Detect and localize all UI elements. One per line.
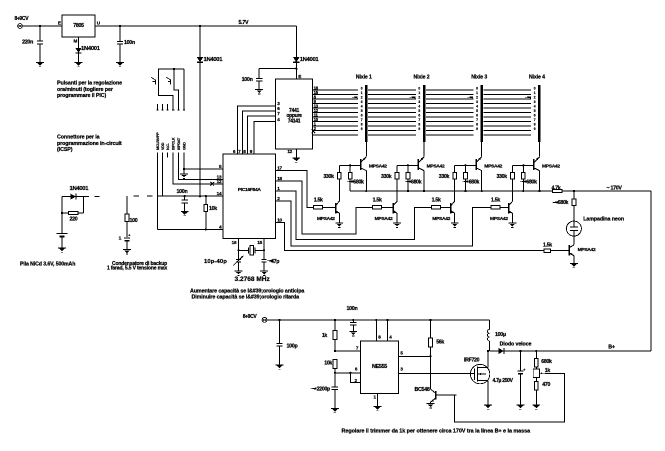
neon lamp LP1 bbox=[566, 216, 624, 236]
svg-text:PIC16F84A: PIC16F84A bbox=[238, 187, 262, 193]
svg-text:100n: 100n bbox=[347, 306, 358, 312]
transistor T6 BC548 bbox=[415, 387, 457, 403]
wire VDD line to PIC pin14 bbox=[162, 195, 223, 197]
capacitor C2 100n bbox=[117, 26, 135, 62]
comment: pulsanti regolazione bbox=[57, 81, 122, 100]
svg-text:10p-40p: 10p-40p bbox=[204, 259, 227, 265]
svg-text:18: 18 bbox=[277, 176, 282, 181]
svg-text:100µ: 100µ bbox=[495, 332, 506, 338]
resistor R 1.5k col4 bbox=[491, 197, 509, 209]
switch S1 bbox=[151, 77, 159, 84]
wire ICSP pin3 stub bbox=[167, 153, 169, 158]
ground bbox=[292, 158, 300, 162]
ground bbox=[484, 405, 492, 409]
svg-text:330k: 330k bbox=[381, 174, 392, 180]
svg-text:MPSA42: MPSA42 bbox=[484, 163, 502, 169]
ground bbox=[180, 174, 188, 178]
nixie tube V3 bbox=[467, 85, 483, 142]
svg-text:7: 7 bbox=[476, 118, 478, 122]
diode D1 1N4001 on 7805 ground pin bbox=[75, 46, 100, 63]
svg-text:Diodo veloce: Diodo veloce bbox=[500, 342, 532, 348]
svg-text:1N4001: 1N4001 bbox=[81, 46, 101, 52]
ground bbox=[509, 223, 517, 227]
svg-text:1 farad, 5.5 V tensione max: 1 farad, 5.5 V tensione max bbox=[107, 266, 168, 272]
no-connect cross on output bus bbox=[312, 129, 316, 133]
resistor R 330k col4 bbox=[496, 165, 514, 201]
ground bbox=[570, 263, 578, 267]
wire anode 170V rail bbox=[350, 190, 552, 192]
svg-text:7805: 7805 bbox=[73, 23, 84, 29]
svg-text:10: 10 bbox=[277, 218, 282, 223]
svg-text:MPSA42: MPSA42 bbox=[490, 216, 508, 222]
svg-text:7: 7 bbox=[418, 118, 420, 122]
regulator U2 7805 bbox=[58, 15, 101, 44]
transistor T2b MPSA42 cathode-side bbox=[375, 201, 398, 223]
svg-text:0: 0 bbox=[476, 87, 478, 91]
wire S2 to pin5 bbox=[174, 84, 179, 104]
PIC left pin labels bbox=[217, 164, 222, 230]
svg-text:5: 5 bbox=[418, 109, 420, 113]
resistor R 1.5k neon bbox=[543, 243, 569, 253]
resistor R 470 bbox=[534, 378, 550, 405]
svg-text:programmare il PIC): programmare il PIC) bbox=[57, 93, 106, 99]
svg-text:MPSA42: MPSA42 bbox=[317, 216, 335, 222]
trimmer R 1k bbox=[533, 367, 550, 378]
resistor R 680k col1 bbox=[347, 165, 364, 191]
transistor T1b MPSA42 cathode-side bbox=[317, 201, 340, 223]
resistor R3 10k pullup bbox=[204, 196, 217, 229]
wire PIC pin2 to column4 bbox=[275, 201, 491, 246]
svg-text:10k: 10k bbox=[209, 206, 217, 212]
svg-text:47p: 47p bbox=[271, 259, 280, 265]
svg-text:9: 9 bbox=[361, 127, 363, 131]
svg-text:1.5k: 1.5k bbox=[543, 243, 552, 249]
wire feedback to BC548 base bbox=[455, 373, 565, 422]
svg-text:1: 1 bbox=[476, 91, 478, 95]
svg-text:330k: 330k bbox=[323, 174, 334, 180]
capacitor C8 100p bbox=[276, 320, 298, 365]
dashed backup supply wire bbox=[83, 196, 162, 214]
wire rail to pin6 bbox=[183, 69, 185, 104]
inductor L1 100u bbox=[487, 320, 505, 351]
svg-text:12: 12 bbox=[287, 149, 292, 154]
svg-text:ISPCLK: ISPCLK bbox=[172, 137, 176, 150]
wire 170V to right edge bbox=[573, 186, 651, 193]
resistor R 330k col3 bbox=[439, 165, 457, 201]
svg-text:1: 1 bbox=[418, 91, 420, 95]
ground bbox=[116, 62, 124, 66]
ground bbox=[532, 405, 540, 409]
resistor R 1.5k col2 bbox=[373, 197, 394, 209]
connector J2 8÷9V boost input bbox=[243, 314, 267, 322]
svg-text:12: 12 bbox=[217, 179, 222, 184]
transistor T1a MPSA42 anode driver bbox=[361, 142, 388, 191]
svg-text:3: 3 bbox=[418, 100, 420, 104]
wire battery loop bbox=[61, 197, 84, 234]
svg-text:680k: 680k bbox=[526, 179, 537, 185]
svg-text:6: 6 bbox=[476, 114, 478, 118]
svg-text:8: 8 bbox=[476, 123, 478, 127]
svg-text:8: 8 bbox=[361, 123, 363, 127]
svg-text:1N4001: 1N4001 bbox=[300, 57, 320, 63]
svg-text:ISPDAT: ISPDAT bbox=[177, 137, 181, 150]
svg-text:8: 8 bbox=[418, 123, 420, 127]
crystal Q1 3.2768MHz bbox=[249, 245, 255, 255]
svg-text:0: 0 bbox=[418, 87, 420, 91]
svg-text:100n: 100n bbox=[177, 189, 188, 195]
svg-text:N.C.: N.C. bbox=[166, 143, 170, 150]
transistor T3b MPSA42 cathode-side bbox=[432, 201, 455, 223]
comment: connettore ICSP bbox=[57, 135, 122, 154]
svg-text:15: 15 bbox=[257, 240, 262, 245]
svg-text:Lampadina neon: Lampadina neon bbox=[583, 216, 624, 222]
capacitor C5 10p-40p trimmer bbox=[204, 250, 244, 271]
diode D3 1N4001 rail to VDD bbox=[197, 26, 223, 196]
svg-text:680k: 680k bbox=[541, 359, 552, 365]
svg-text:1.5k: 1.5k bbox=[432, 197, 441, 203]
wire ICSP pin6 GND to PIC pin5 bbox=[183, 153, 223, 174]
resistor R 330k col2 bbox=[381, 165, 399, 201]
svg-text:9: 9 bbox=[476, 127, 478, 131]
wire S1 to pin4 bbox=[159, 84, 174, 104]
diode D4 1N4001 rail to 74141 bbox=[293, 26, 319, 79]
resistor R 330k col1 bbox=[323, 165, 341, 201]
nixie tube V4 bbox=[524, 85, 540, 142]
ground bbox=[260, 271, 268, 275]
svg-text:+: + bbox=[523, 368, 525, 372]
wire PIC pin6 to 74141 pin3 bbox=[238, 106, 276, 154]
svg-text:MPSA42: MPSA42 bbox=[432, 216, 450, 222]
74141 input pin labels bbox=[277, 101, 280, 122]
ground bbox=[123, 250, 131, 254]
resistor R 1.5k col1 bbox=[314, 197, 336, 209]
wire 555 pin7 bbox=[334, 350, 361, 352]
wire crystal network bbox=[237, 239, 265, 252]
transistor T2a MPSA42 anode driver bbox=[418, 142, 445, 191]
svg-text:1.5k: 1.5k bbox=[373, 197, 382, 203]
svg-text:3.2768 MHz: 3.2768 MHz bbox=[235, 276, 271, 283]
svg-text:0: 0 bbox=[361, 87, 363, 91]
ground bbox=[58, 248, 66, 252]
resistor R 10k timing bbox=[324, 360, 337, 373]
resistor R 56k bbox=[429, 320, 445, 389]
svg-text:6: 6 bbox=[534, 114, 536, 118]
svg-text:4.7k: 4.7k bbox=[552, 185, 561, 191]
ground bbox=[331, 408, 339, 412]
svg-text:4: 4 bbox=[361, 105, 363, 109]
resistor R 1.5k col3 bbox=[432, 197, 451, 209]
switch S2 bbox=[166, 77, 174, 84]
svg-text:B+: B+ bbox=[608, 344, 615, 350]
svg-text:Nixie 4: Nixie 4 bbox=[529, 75, 545, 81]
NE555 pin labels bbox=[355, 335, 404, 400]
wire PIC pin10 to neon driver bbox=[275, 223, 544, 251]
svg-text:~ 170V: ~ 170V bbox=[607, 186, 623, 192]
svg-text:Connettore per la: Connettore per la bbox=[57, 135, 100, 141]
capacitor C11 4.7u 250V bbox=[493, 350, 526, 405]
svg-text:BC548: BC548 bbox=[415, 387, 430, 393]
wire base network bbox=[512, 164, 533, 166]
svg-text:Diminuire capacità se l&#39;or: Diminuire capacità se l&#39;orologio rit… bbox=[192, 295, 300, 301]
svg-text:74141: 74141 bbox=[288, 118, 301, 124]
PIC bottom pin labels 16 15 bbox=[232, 240, 263, 245]
resistor R 680k col2 bbox=[404, 165, 421, 191]
svg-text:680k: 680k bbox=[469, 179, 480, 185]
svg-text:Pila NiCd 3.6V, 500mAh: Pila NiCd 3.6V, 500mAh bbox=[20, 262, 75, 268]
wire ICSP pin2 to VDD line bbox=[161, 153, 163, 197]
nixie tube V2 bbox=[409, 85, 425, 142]
svg-text:5: 5 bbox=[534, 109, 536, 113]
wire 7805 M pin bbox=[78, 37, 80, 48]
capacitor C3 backup 1F bbox=[119, 233, 131, 249]
svg-text:8: 8 bbox=[534, 123, 536, 127]
svg-text:1.5k: 1.5k bbox=[314, 197, 323, 203]
svg-text:9: 9 bbox=[418, 127, 420, 131]
ground bbox=[75, 62, 83, 66]
svg-text:2: 2 bbox=[418, 96, 420, 100]
svg-text:100p: 100p bbox=[287, 344, 299, 350]
svg-text:100n: 100n bbox=[124, 40, 135, 46]
wire 555 pin5 bbox=[399, 355, 432, 357]
svg-text:IRF720: IRF720 bbox=[464, 358, 480, 364]
svg-text:56k: 56k bbox=[436, 340, 444, 346]
svg-text:MPSA42: MPSA42 bbox=[369, 163, 387, 169]
ground bbox=[374, 406, 382, 410]
svg-text:E: E bbox=[58, 20, 61, 25]
svg-text:5: 5 bbox=[361, 109, 363, 113]
svg-text:(ICSP): (ICSP) bbox=[57, 147, 73, 153]
svg-text:Nixie 2: Nixie 2 bbox=[414, 75, 430, 81]
ground bbox=[36, 62, 44, 66]
svg-text:4: 4 bbox=[476, 105, 478, 109]
svg-text:2: 2 bbox=[476, 96, 478, 100]
transistor T4a MPSA42 anode driver bbox=[534, 142, 561, 191]
svg-text:MPSA42: MPSA42 bbox=[578, 247, 596, 253]
svg-text:14: 14 bbox=[217, 191, 222, 196]
svg-text:+: + bbox=[128, 233, 130, 237]
resistor R1 220 bbox=[62, 211, 83, 222]
resistor R 1k timing bbox=[322, 320, 337, 351]
svg-text:GND: GND bbox=[182, 142, 186, 150]
svg-text:Pulsanti per la regolazione: Pulsanti per la regolazione bbox=[57, 81, 122, 87]
svg-text:MPSA42: MPSA42 bbox=[427, 163, 445, 169]
svg-text:Nixie 3: Nixie 3 bbox=[471, 75, 487, 81]
svg-text:2: 2 bbox=[534, 96, 536, 100]
svg-text:7: 7 bbox=[361, 118, 363, 122]
74141 GND pin 12 bbox=[287, 149, 296, 158]
wire ICSP pin1 to MCLR line bbox=[156, 153, 158, 230]
svg-text:8÷9CV: 8÷9CV bbox=[15, 16, 30, 22]
svg-text:680k: 680k bbox=[558, 200, 569, 206]
wire PIC pin8 to 74141 pin7 bbox=[248, 116, 276, 154]
svg-text:1k: 1k bbox=[322, 333, 328, 339]
svg-text:3: 3 bbox=[476, 100, 478, 104]
resistor R2 100 bbox=[125, 214, 138, 237]
connector J1 8÷9V input bbox=[15, 16, 30, 28]
svg-text:7: 7 bbox=[534, 118, 536, 122]
svg-text:Nixie 1: Nixie 1 bbox=[356, 75, 372, 81]
svg-text:1.5k: 1.5k bbox=[491, 197, 500, 203]
wire jumper top rail bbox=[159, 68, 184, 79]
svg-text:1N4001: 1N4001 bbox=[204, 57, 224, 63]
no-connect cross on pin12 wire bbox=[210, 182, 214, 186]
PIC right pin labels bbox=[277, 166, 282, 223]
svg-text:2200p: 2200p bbox=[317, 387, 330, 393]
svg-text:M: M bbox=[73, 39, 77, 44]
wire PIC pin9 to 74141 pin4 bbox=[254, 122, 276, 154]
wire PIC pin1 to column3 bbox=[275, 191, 431, 240]
svg-text:680k: 680k bbox=[353, 179, 364, 185]
wire PIC pin18 to column2 bbox=[275, 181, 372, 234]
svg-text:4.7µ 250V: 4.7µ 250V bbox=[493, 378, 514, 384]
wire MCLR line to PIC pin4 bbox=[157, 228, 223, 230]
wire boost supply rail bbox=[267, 319, 490, 321]
resistor R 680k neon bbox=[551, 191, 576, 221]
svg-text:9: 9 bbox=[534, 127, 536, 131]
diode D2 1N4001 battery bbox=[62, 186, 89, 199]
IC U4 NE555 bbox=[360, 341, 398, 394]
resistor R 680k feedback bbox=[534, 350, 552, 367]
svg-text:NE555: NE555 bbox=[372, 364, 387, 370]
ground bbox=[276, 365, 284, 369]
svg-text:8÷9CV: 8÷9CV bbox=[243, 314, 258, 320]
capacitor C7 100n 74141 bypass bbox=[242, 68, 298, 90]
ground bbox=[451, 223, 459, 227]
wire 555 power pins bbox=[376, 320, 387, 341]
ground bbox=[349, 332, 357, 336]
mosfet Q2 IRF720 bbox=[464, 351, 490, 405]
comment: condensatore di backup bbox=[107, 261, 168, 272]
wire PIC pin17 to column1 bbox=[275, 171, 313, 208]
ground bbox=[335, 223, 343, 227]
ground bbox=[517, 405, 525, 409]
wire base network bbox=[455, 164, 476, 166]
diode D5 fast bbox=[487, 342, 651, 354]
resistor R 4.7k bbox=[552, 185, 574, 192]
battery B1 NiCd bbox=[57, 233, 68, 247]
capacitor C10 100n 555 bypass bbox=[347, 306, 358, 331]
svg-text:10k: 10k bbox=[324, 361, 332, 367]
comment: aumentare capacita bbox=[190, 289, 304, 301]
ground bbox=[181, 211, 189, 215]
svg-text:3: 3 bbox=[361, 100, 363, 104]
74141 output pin labels bbox=[314, 85, 319, 131]
transistor T3a MPSA42 anode driver bbox=[476, 142, 503, 191]
74141 output bus wires bbox=[313, 90, 532, 135]
svg-text:MCLR/VPP: MCLR/VPP bbox=[156, 132, 160, 150]
IC U3 7441/74141 bbox=[276, 74, 313, 149]
wire 555 pin6 pin2 bbox=[334, 372, 361, 383]
wire ICSP pin5 to PIC pin13 bbox=[178, 153, 223, 180]
svg-text:2: 2 bbox=[361, 96, 363, 100]
svg-text:330k: 330k bbox=[439, 174, 450, 180]
svg-text:MPSA42: MPSA42 bbox=[542, 163, 560, 169]
svg-text:E: E bbox=[298, 74, 301, 79]
svg-text:470: 470 bbox=[542, 382, 550, 388]
svg-text:1N4001: 1N4001 bbox=[70, 186, 90, 192]
capacitor C1 220n bbox=[22, 26, 43, 62]
wire 7805 output rail 5.7V bbox=[95, 25, 296, 27]
svg-text:16: 16 bbox=[232, 240, 237, 245]
svg-text:6: 6 bbox=[418, 114, 420, 118]
resistor R 680k col3 bbox=[462, 165, 479, 191]
connector SV1 pins bbox=[156, 104, 185, 110]
wire ICSP pin4 to PIC pin12 bbox=[173, 153, 223, 184]
wire 555 pin1 to ground bbox=[377, 394, 379, 407]
PIC top pin labels 6 7 8 9 bbox=[233, 149, 253, 154]
IC U1 PIC16F84A bbox=[223, 154, 275, 239]
svg-text:0: 0 bbox=[534, 87, 536, 91]
svg-text:MPSA42: MPSA42 bbox=[375, 216, 393, 222]
wire base network bbox=[339, 164, 360, 166]
svg-text:4: 4 bbox=[534, 105, 536, 109]
wire 555 pin3 to gate bbox=[399, 372, 471, 374]
svg-text:VDD: VDD bbox=[161, 142, 165, 150]
svg-text:3: 3 bbox=[534, 100, 536, 104]
wire input to 7805 bbox=[22, 25, 62, 27]
ground bbox=[393, 223, 401, 227]
svg-text:680k: 680k bbox=[411, 179, 422, 185]
svg-text:17: 17 bbox=[277, 166, 282, 171]
connector pin labels bbox=[156, 132, 187, 150]
transistor T4b MPSA42 cathode-side bbox=[490, 201, 513, 223]
ground bbox=[255, 90, 263, 94]
wire base network bbox=[397, 164, 418, 166]
svg-text:330k: 330k bbox=[496, 174, 507, 180]
capacitor C4 100n PIC bypass bbox=[177, 189, 188, 211]
wire 170V right edge down to B+ bbox=[650, 191, 652, 351]
svg-text:1: 1 bbox=[534, 91, 536, 95]
capacitor C6 47p bbox=[262, 250, 281, 271]
resistor R 680k col4 bbox=[520, 165, 537, 191]
capacitor C9 2200p bbox=[310, 373, 338, 409]
svg-text:Regolare il trimmer da 1k per: Regolare il trimmer da 1k per ottenere c… bbox=[342, 429, 532, 435]
svg-text:4: 4 bbox=[418, 105, 420, 109]
svg-text:100: 100 bbox=[130, 218, 138, 224]
nixie tube V1 bbox=[351, 85, 367, 142]
svg-text:5.7V: 5.7V bbox=[239, 20, 249, 26]
wire PIC pin7 to 74141 pin6 bbox=[243, 111, 276, 154]
svg-text:6: 6 bbox=[361, 114, 363, 118]
ground bbox=[235, 271, 243, 275]
svg-text:220: 220 bbox=[70, 217, 78, 223]
ground bbox=[427, 404, 435, 408]
svg-text:5: 5 bbox=[476, 109, 478, 113]
svg-text:100n: 100n bbox=[242, 77, 253, 83]
transistor T5 MPSA42 neon driver bbox=[569, 236, 596, 263]
svg-text:220n: 220n bbox=[22, 40, 33, 46]
svg-text:1: 1 bbox=[361, 91, 363, 95]
